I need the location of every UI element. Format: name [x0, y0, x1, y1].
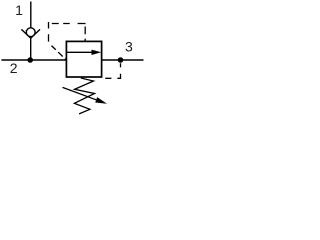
- pilot line (dashed): node 3 drop and run to valve body bottom: [102, 60, 121, 78]
- pilot line (dashed): left vertical riser: [48, 22, 50, 43]
- check valve V1: seat: [21, 29, 40, 38]
- pilot line (dashed): diagonal to inlet corner: [49, 43, 67, 60]
- wire: check valve to node 2: [30, 38, 32, 60]
- svg-text:3: 3: [125, 39, 133, 55]
- adjustment arrow shaft: [63, 87, 97, 99]
- svg-text:2: 2: [10, 60, 18, 76]
- pilot line (dashed): top horizontal run: [49, 23, 86, 25]
- valve body U1: [66, 41, 101, 77]
- node 2 junction dot: [27, 57, 33, 63]
- spring: [74, 78, 94, 114]
- node 3 junction dot: [118, 57, 124, 63]
- pilot line (dashed): drop to valve body top: [84, 24, 86, 42]
- wire: main inlet line (port 2 to valve body): [1, 59, 66, 61]
- svg-text:1: 1: [15, 2, 23, 18]
- adjustment arrow head: [95, 97, 107, 104]
- wire: outlet line (valve body to port 3): [102, 59, 144, 61]
- flow path arrow inside valve body: [66, 50, 101, 55]
- wire: port 1 vertical line: [30, 2, 32, 29]
- check valve V1: ball: [26, 28, 35, 37]
